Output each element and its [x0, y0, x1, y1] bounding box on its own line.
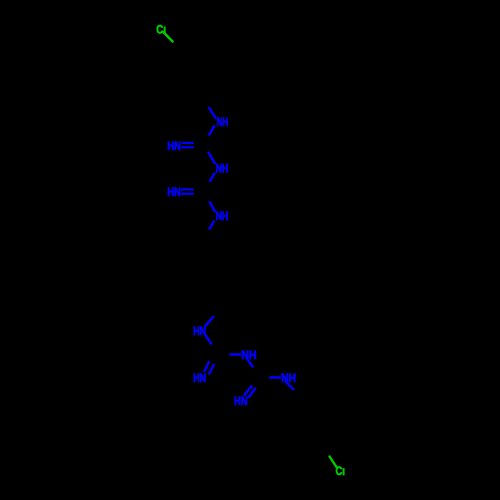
svg-text:C: C	[336, 466, 343, 478]
wire: bond N5 to chain C, nitrogen half (blue)	[209, 221, 214, 229]
wire: bond C3 to N7, nitrogen half (blue)	[229, 353, 241, 356]
wire: bond C4 to N9, carbon half (black)	[258, 376, 270, 379]
wire: bond N9 to ring C, nitrogen half (blue)	[286, 382, 294, 390]
wire: bond C2 to N5, carbon half (black)	[205, 191, 210, 203]
wire: double bond C2=N4 nitrogen half line b (blue)	[181, 193, 194, 195]
wire: bond C1 to N3, carbon half (black)	[205, 145, 209, 153]
wire: bond C(para)-Cl carbon half bottom (black)	[326, 453, 329, 457]
wire: bond N1 to C1, nitrogen half (blue)	[209, 126, 214, 135]
svg-text:NH: NH	[217, 117, 228, 129]
wire: double bond C1=N2 nitrogen half line a (blue)	[182, 142, 194, 144]
wire: double bond C1=N2 nitrogen half line b (blue)	[182, 146, 194, 148]
wire: double bond C4=N10 nitrogen half line a (blue)	[244, 385, 252, 395]
wire: bond chain C to N6, nitrogen half (blue)	[205, 317, 213, 326]
wire: double bond C4=N10 nitrogen half line b (blue)	[248, 388, 255, 398]
svg-text:HN: HN	[167, 141, 181, 153]
wire: bond ring C to N1, carbon half (black)	[204, 97, 209, 108]
svg-text:C: C	[156, 24, 163, 36]
wire: double bond C1=N2 carbon half (black)	[194, 142, 205, 144]
svg-text:HN: HN	[193, 373, 206, 385]
svg-text:NH: NH	[216, 163, 229, 175]
wire: bond C1 to N3, nitrogen half (blue)	[209, 153, 215, 164]
bottom chlorophenyl ring (black, invisible on black bg)	[284, 398, 343, 453]
svg-text:l: l	[342, 467, 345, 478]
wire: bond N1 to C1, carbon half (black)	[205, 136, 209, 145]
wire: bond Cl half (green)	[163, 32, 172, 42]
wire: bond N6 to C3, carbon half (black)	[212, 344, 215, 354]
svg-text:HN: HN	[167, 187, 181, 199]
wire: bond C4 to N9, nitrogen half (blue)	[269, 376, 281, 379]
wire: bond N7 to C4, carbon half (black)	[253, 367, 257, 373]
wire: bond N6 to C3, nitrogen half (blue)	[206, 335, 212, 344]
wire: bond N9 to ring C, carbon half (black)	[294, 390, 300, 398]
svg-text:HN: HN	[193, 326, 206, 338]
wire: bond N7 to C4, nitrogen half (blue)	[248, 360, 254, 368]
wire: bond C3 to N7, carbon half (black)	[215, 353, 230, 356]
wire: hexamethylene chain (black, invisible)	[205, 230, 219, 320]
wire: bond N3 to C2, carbon half (black)	[205, 182, 210, 191]
wire: double bond C2=N4 nitrogen half line a (blue)	[181, 188, 194, 190]
wire: bond Cl half bottom (green)	[330, 457, 337, 468]
wire: double bond C3=N8 nitrogen half line b (blue)	[209, 364, 214, 375]
svg-text:NH: NH	[216, 211, 229, 223]
top chlorophenyl ring (black, invisible on black bg)	[166, 52, 218, 97]
svg-text:HN: HN	[234, 396, 248, 408]
wire: bond C(para)-Cl carbon half (black)	[170, 41, 179, 52]
wire: bond N3 to C2, nitrogen half (blue)	[210, 173, 215, 181]
wire: bond ring C to N1, nitrogen half (blue)	[209, 108, 215, 118]
wire: bond C2 to N5, nitrogen half (blue)	[210, 202, 215, 211]
wire: double bond C3=N8 nitrogen half line a (blue)	[204, 361, 209, 372]
